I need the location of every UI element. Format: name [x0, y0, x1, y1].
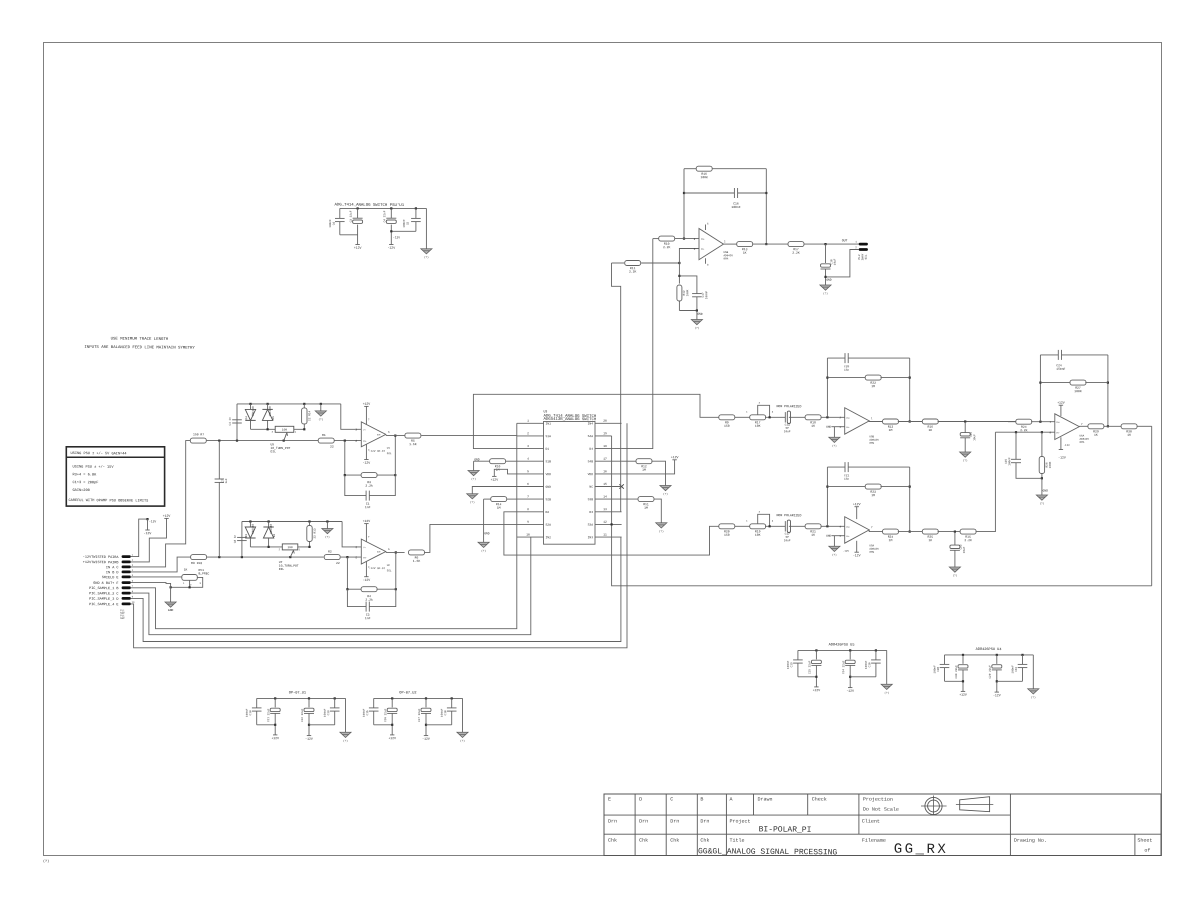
wire opamp output	[869, 420, 883, 423]
title block row lines	[604, 814, 1010, 816]
svg-text:2.2K: 2.2K	[629, 269, 637, 273]
svg-text:of: of	[1144, 848, 1150, 854]
capacitor C4 1n	[236, 404, 238, 441]
capacitor C6	[339, 208, 341, 218]
svg-text:2.2k: 2.2k	[365, 484, 373, 488]
wire trimpot wiper	[290, 551, 293, 558]
svg-text:GND: GND	[826, 535, 831, 538]
resistor R9 150	[719, 415, 735, 420]
svg-text:ADG5413B_ANALOG SWITCH: ADG5413B_ANALOG SWITCH	[543, 417, 596, 422]
cone symbol	[960, 797, 990, 812]
capacitor C25 100nF	[1015, 432, 1017, 459]
wire psu rail	[257, 697, 346, 699]
power -12V opamp	[365, 444, 367, 459]
capacitor C15 22uF	[815, 649, 817, 651]
resistor R14 1M pin7	[507, 498, 517, 500]
svg-text:A: A	[729, 797, 732, 803]
svg-text:-12V OP-07: -12V OP-07	[369, 450, 386, 453]
svg-text:1K: 1K	[811, 533, 815, 537]
resistor R9 150	[191, 555, 207, 560]
wire rail to opamp pin3	[341, 404, 362, 429]
power +12V VDD pin5	[494, 469, 517, 476]
svg-text:AD8426PSU U4: AD8426PSU U4	[976, 647, 1002, 652]
svg-text:-12V: -12V	[993, 693, 1001, 697]
svg-text:-12V: -12V	[363, 578, 371, 582]
IC pin 5 VDD	[517, 473, 544, 475]
wire feedback left vertical	[826, 358, 828, 417]
power -12V opamp	[365, 561, 367, 576]
vertical R12 divider	[678, 263, 680, 284]
power +12V U6	[1060, 405, 1062, 416]
svg-text:1.6K: 1.6K	[413, 559, 421, 563]
svg-text:10uF: 10uF	[834, 258, 837, 265]
resistor R1 22	[318, 438, 334, 443]
power -12V U6	[1060, 437, 1062, 449]
resistor R22 1M	[827, 377, 866, 379]
svg-text:1nF: 1nF	[365, 616, 371, 620]
resistor R10 1M pin4	[506, 460, 517, 462]
svg-text:S2A: S2A	[545, 524, 551, 527]
svg-text:GND: GND	[168, 609, 174, 612]
svg-text:2.2K: 2.2K	[964, 538, 972, 542]
IC pin 7 S2B	[517, 498, 544, 500]
wire SHIELD to RV1	[131, 576, 182, 578]
wire D2 pin8 to lower filter	[504, 512, 722, 555]
svg-text:C10: C10	[249, 710, 252, 715]
op-amp U2 OP-07	[361, 539, 386, 564]
svg-text:C13: C13	[790, 662, 793, 667]
svg-text:DIL: DIL	[270, 450, 276, 453]
ground connector	[165, 602, 176, 607]
capacitor C14 10uF	[784, 412, 786, 422]
capacitor C16	[875, 649, 877, 651]
wire R12/C17 bottom	[679, 310, 697, 312]
diode D4 1N4148	[249, 403, 251, 405]
svg-text:S2B: S2B	[545, 498, 551, 501]
power -12V	[848, 687, 852, 689]
capacitor C7 1uF interchannel	[218, 441, 220, 479]
svg-text:-12V: -12V	[1058, 455, 1066, 459]
wire C6-C3 bottom	[340, 234, 358, 236]
capacitor C15 10uF to gnd	[964, 422, 966, 433]
resistor R14 22 vertical	[303, 403, 305, 405]
svg-text:INPUTS ARE BALANCED FEED LINE: INPUTS ARE BALANCED FEED LINE MAINTAIN S…	[84, 345, 195, 351]
svg-text:C17 22uF: C17 22uF	[418, 708, 421, 722]
svg-text:(?): (?)	[1040, 502, 1045, 505]
wire clamp rail	[242, 521, 342, 523]
svg-text:22: 22	[336, 561, 340, 565]
svg-text:-12V: -12V	[1063, 444, 1070, 447]
svg-text:10uF: 10uF	[784, 539, 791, 542]
svg-text:IN-: IN-	[363, 440, 367, 443]
svg-text:IN B D: IN B D	[106, 570, 119, 575]
wire feedback left	[683, 169, 685, 239]
svg-text:GND: GND	[484, 532, 490, 535]
svg-text:1.6K: 1.6K	[409, 442, 417, 446]
svg-text:R1: R1	[322, 433, 326, 437]
power -12V	[307, 735, 311, 737]
svg-text:+12V: +12V	[671, 455, 679, 459]
svg-text:Check: Check	[812, 797, 827, 803]
power +12V flag pin2	[164, 517, 168, 519]
svg-text:C3 22uF: C3 22uF	[350, 210, 353, 222]
svg-text:19: 19	[603, 432, 607, 435]
svg-text:C16: C16	[868, 662, 871, 667]
svg-text:Chk: Chk	[700, 838, 709, 844]
wire psu rail	[945, 654, 1034, 656]
op-amp U5B	[699, 229, 724, 260]
capacitor C17	[679, 276, 697, 294]
wire PIC_SAMPLE_2 bus	[131, 537, 531, 635]
svg-text:+12V: +12V	[813, 688, 821, 692]
wire IN B to R9	[131, 557, 191, 572]
svg-text:E: E	[608, 797, 611, 803]
power +12V pin16	[622, 460, 675, 474]
svg-text:(?): (?)	[695, 327, 700, 330]
capacitor C18	[451, 697, 453, 699]
svg-text:C1+3 = 200pF: C1+3 = 200pF	[72, 480, 98, 485]
wire R11 to opamp pin3	[678, 262, 680, 264]
svg-text:10uF: 10uF	[963, 546, 966, 553]
trimpot 100 TURN_POT	[282, 544, 298, 550]
svg-text:R2: R2	[328, 550, 332, 554]
wire feedback to output	[395, 552, 397, 589]
ground psu rail	[462, 698, 464, 732]
svg-text:IN-: IN-	[701, 248, 705, 251]
svg-text:14: 14	[603, 495, 607, 498]
svg-text:-12V: -12V	[853, 553, 861, 557]
capacitor C1 1nF feedback	[345, 475, 366, 496]
svg-text:100K: 100K	[1074, 389, 1082, 393]
resistor R6 1.6K output	[386, 551, 405, 553]
svg-text:15: 15	[603, 483, 607, 486]
svg-text:(?): (?)	[470, 501, 475, 504]
potentiometer R19 10K	[750, 524, 766, 529]
power +12V	[961, 690, 965, 692]
svg-text:(?): (?)	[1031, 696, 1036, 699]
resistor R24 2.2K	[1008, 421, 1016, 423]
svg-text:10: 10	[526, 533, 530, 536]
IC pin 15 NC	[595, 486, 622, 488]
svg-text:-12V: -12V	[305, 737, 313, 741]
capacitor C8 1n	[241, 522, 243, 558]
svg-text:17: 17	[603, 458, 607, 461]
ground pin6	[472, 487, 517, 494]
IC U3 ADG T414 analog switch body	[544, 422, 596, 545]
svg-text:100nF: 100nF	[1008, 457, 1011, 466]
svg-text:18: 18	[603, 445, 607, 448]
svg-text:80%: 80%	[1079, 441, 1084, 444]
svg-text:U3: U3	[543, 409, 547, 413]
svg-text:GG&GL_ANALOG SIGNAL PRCESSING: GG&GL_ANALOG SIGNAL PRCESSING	[698, 847, 837, 857]
capacitor C30 22uF	[962, 654, 964, 656]
svg-text:1N4148: 1N4148	[252, 524, 255, 534]
svg-text:B: B	[700, 797, 703, 803]
svg-text:D4: D4	[245, 416, 248, 420]
ground clamp rail	[320, 403, 322, 405]
svg-text:C15: C15	[366, 710, 369, 715]
svg-text:S1B: S1B	[545, 460, 551, 463]
svg-text:1M: 1M	[644, 506, 648, 510]
wire psu rail	[798, 649, 887, 651]
svg-text:Sheet: Sheet	[1137, 838, 1152, 844]
power +12V	[273, 734, 277, 736]
IC pin 20 IN4	[595, 422, 622, 424]
wire bottom right pair	[997, 680, 1023, 682]
svg-text:(?): (?)	[318, 418, 323, 421]
power +12V	[390, 734, 394, 736]
svg-text:NC: NC	[589, 486, 593, 489]
svg-text:1M: 1M	[871, 493, 875, 497]
svg-text:20: 20	[603, 420, 607, 423]
wire U6 feedback verticals	[1039, 355, 1041, 422]
svg-text:DIL: DIL	[387, 569, 392, 572]
wire PIC_SAMPLE_3 bus	[131, 537, 621, 642]
svg-text:100K: 100K	[686, 289, 689, 296]
power +12V opamp	[365, 524, 367, 542]
wire feedback to output	[394, 436, 396, 476]
diode D2 1N4148	[268, 520, 270, 522]
svg-text:C13: C13	[327, 710, 330, 715]
svg-text:(?): (?)	[659, 530, 664, 533]
capacitor C28	[944, 655, 946, 664]
svg-text:Client: Client	[862, 819, 880, 825]
svg-text:-12V: -12V	[363, 461, 371, 465]
svg-text:-12V: -12V	[422, 737, 430, 741]
wire feedback right	[765, 169, 767, 244]
wire trimpot wiper	[284, 433, 287, 441]
wire U6 pin3 line	[995, 431, 1054, 433]
trimpot 100 TURN_POT	[275, 426, 294, 432]
svg-text:(?): (?)	[325, 536, 330, 539]
svg-text:-12V: -12V	[149, 520, 156, 523]
svg-text:Do Not Scale: Do Not Scale	[863, 807, 899, 813]
svg-text:PIC_SAMPLE_1 B: PIC_SAMPLE_1 B	[89, 586, 118, 591]
svg-text:-12V: -12V	[846, 689, 854, 693]
power +12V U5A	[856, 507, 858, 519]
svg-text:3: 3	[527, 445, 529, 448]
capacitor C22 10uF to gnd	[954, 532, 956, 546]
svg-text:USING PSU ± +/- 15V: USING PSU ± +/- 15V	[72, 465, 114, 470]
svg-text:IN-: IN-	[1056, 431, 1059, 434]
svg-text:C12 22uF: C12 22uF	[301, 708, 304, 722]
wire PL2 pin2 to gnd	[826, 250, 859, 277]
power -12V	[424, 735, 428, 737]
svg-text:Drn: Drn	[670, 819, 679, 825]
capacitor C10	[256, 698, 258, 707]
svg-text:DIL: DIL	[279, 568, 285, 571]
svg-text:1K: 1K	[743, 251, 747, 255]
svg-text:SIL: SIL	[865, 254, 868, 259]
svg-text:+12V: +12V	[853, 502, 861, 506]
svg-text:(?): (?)	[832, 554, 837, 557]
svg-text:+12V: +12V	[163, 514, 171, 518]
svg-text:10uF: 10uF	[973, 434, 976, 441]
svg-text:GND: GND	[474, 458, 480, 461]
svg-text:(?): (?)	[43, 859, 49, 864]
svg-text:ADG_T414_ANALOG SWITCH PSU'U1: ADG_T414_ANALOG SWITCH PSU'U1	[334, 203, 404, 209]
svg-text:OP-07_U2: OP-07_U2	[399, 690, 416, 695]
wire U6 output	[1079, 425, 1088, 427]
svg-text:IN-: IN-	[846, 535, 849, 538]
svg-text:15n: 15n	[844, 369, 849, 372]
wire RV1 terminal3 to wiper	[171, 577, 203, 587]
wire +12V pin2	[131, 518, 167, 562]
svg-text:+12V: +12V	[1057, 401, 1065, 405]
capacitor C31	[1021, 654, 1023, 656]
wire clamp rail	[237, 403, 341, 405]
resistor R26 100K vertical	[1041, 432, 1043, 456]
svg-text:Filename: Filename	[862, 838, 886, 844]
svg-text:1uF: 1uF	[225, 478, 228, 483]
resistor R30 1K	[1121, 424, 1137, 429]
svg-text:C14 22uF: C14 22uF	[842, 660, 845, 674]
wire S4A S3A to output net	[612, 436, 1152, 586]
svg-text:+12VTWISTED PAIRB: +12VTWISTED PAIRB	[83, 560, 119, 565]
resistor R16 1K	[922, 419, 938, 424]
wire feedback left vertical	[826, 467, 828, 526]
svg-text:(?): (?)	[953, 574, 958, 577]
wire diode bottoms	[251, 428, 276, 430]
svg-text:(?): (?)	[481, 550, 486, 553]
resistor R3 2.2k feedback	[344, 441, 346, 476]
svg-text:Projection: Projection	[863, 797, 893, 803]
resistor R23 1M	[827, 486, 866, 488]
svg-text:D1: D1	[245, 533, 248, 537]
op-amp U1 OP-07	[361, 422, 386, 447]
capacitor C29 22uF	[996, 654, 998, 656]
wire PIC_SAMPLE_4 bus	[131, 423, 627, 648]
svg-text:C28: C28	[937, 667, 940, 672]
power -12V U5A	[856, 541, 858, 552]
capacitor C3 1nF feedback	[347, 589, 366, 606]
svg-text:100nF: 100nF	[705, 290, 708, 299]
svg-text:15n: 15n	[844, 478, 849, 481]
svg-text:VDD: VDD	[588, 473, 594, 476]
svg-text:1M: 1M	[889, 428, 893, 432]
svg-text:S1A: S1A	[545, 435, 551, 438]
svg-text:+12V: +12V	[959, 693, 967, 697]
ground clamp rail	[326, 520, 328, 522]
capacitor C17 22uF	[425, 697, 427, 699]
wire D3 pin13 to R11 input	[612, 263, 621, 512]
svg-text:D5: D5	[272, 416, 275, 420]
capacitor C20 15n	[827, 357, 845, 359]
svg-text:VDD: VDD	[545, 473, 551, 476]
resistor R10	[653, 238, 659, 240]
svg-text:OUT: OUT	[842, 238, 848, 242]
svg-text:13: 13	[603, 508, 607, 511]
svg-text:(?): (?)	[832, 445, 837, 448]
power -12V	[995, 691, 999, 693]
resistor R7 150	[190, 438, 206, 443]
capacitor C3	[357, 207, 359, 209]
ground R12	[660, 486, 671, 491]
svg-text:USE MINIMUM TRACE LENGTH: USE MINIMUM TRACE LENGTH	[111, 337, 169, 342]
power +12V	[355, 244, 359, 246]
resistor R16	[684, 168, 696, 170]
wire RV1 wiper	[189, 580, 191, 587]
wire bottom right pair	[426, 724, 452, 726]
wire output to S2A	[425, 524, 517, 552]
op-amp U6A	[1055, 414, 1080, 440]
svg-text:C16 22uF: C16 22uF	[384, 708, 387, 722]
svg-text:-12V: -12V	[144, 531, 152, 535]
svg-text:+12V: +12V	[354, 246, 362, 250]
IC pin 17 S4B	[595, 460, 622, 462]
svg-text:D4: D4	[589, 448, 593, 451]
svg-text:1M: 1M	[889, 538, 893, 542]
svg-text:1K: 1K	[184, 568, 188, 571]
svg-text:D3: D3	[589, 511, 593, 514]
capacitor C12 22uF	[308, 697, 310, 699]
ground psu rail	[345, 698, 347, 732]
resistor R27 100K	[1040, 382, 1070, 384]
IC pin 6 GND	[517, 486, 544, 488]
power -12V flag pin1	[147, 519, 149, 530]
svg-text:C6: C6	[333, 221, 336, 225]
resistor R21 1K	[805, 524, 821, 529]
wire -12V pin1	[131, 519, 148, 557]
svg-text:2: 2	[527, 432, 529, 435]
svg-text:1nF: 1nF	[365, 505, 371, 509]
svg-text:4: 4	[527, 458, 529, 461]
svg-text:2.2k: 2.2k	[365, 598, 373, 602]
resistor R17	[788, 242, 804, 247]
svg-text:150: 150	[724, 424, 730, 428]
op-amp U5B	[845, 408, 870, 435]
svg-text:80%: 80%	[869, 442, 874, 445]
svg-text:C15 22uF: C15 22uF	[808, 660, 811, 674]
svg-text:80%: 80%	[869, 551, 874, 554]
svg-text:Drawn: Drawn	[757, 797, 772, 803]
svg-text:S3A: S3A	[588, 524, 594, 527]
svg-text:Chk: Chk	[639, 838, 648, 844]
svg-text:(?): (?)	[424, 256, 429, 259]
svg-text:Project: Project	[729, 819, 750, 825]
potentiometer RV1 BI_PREC	[182, 575, 198, 581]
resistor R2 22	[324, 555, 340, 560]
svg-text:Title: Title	[729, 838, 744, 844]
svg-text:C11 22uF: C11 22uF	[267, 708, 270, 722]
svg-text:CAREFUL WITH OPAMP PSU OBSERVE: CAREFUL WITH OPAMP PSU OBSERVE LIMITS	[68, 498, 148, 504]
resistor R24 1M output	[883, 529, 899, 534]
IC pin 13 D3	[595, 511, 622, 513]
IC pin 14 S3B	[595, 498, 622, 500]
svg-text:-12V: -12V	[387, 246, 395, 250]
svg-text:BI-POLAR_PI: BI-POLAR_PI	[759, 825, 812, 834]
svg-text:1N4148: 1N4148	[269, 406, 272, 416]
svg-text:NON POLARIZED: NON POLARIZED	[776, 513, 801, 517]
svg-text:GND: GND	[1042, 490, 1048, 493]
ground R26 C25	[1041, 478, 1043, 495]
svg-text:GND: GND	[826, 279, 832, 282]
wire pot wiper loop	[758, 514, 770, 526]
svg-text:2.2K: 2.2K	[663, 245, 671, 249]
svg-text:100nF: 100nF	[403, 219, 406, 228]
wire IN A to R7	[131, 441, 190, 567]
svg-text:1K: 1K	[928, 428, 932, 432]
IC pin 18 D4	[595, 448, 622, 450]
svg-text:22: 22	[330, 445, 334, 449]
svg-text:2.2K: 2.2K	[1020, 428, 1028, 432]
power +12V	[814, 686, 818, 688]
nc cross pin 15	[619, 484, 623, 488]
svg-text:OP-07_U1: OP-07_U1	[289, 690, 306, 695]
svg-text:11: 11	[603, 533, 607, 536]
resistor R12 100K	[677, 285, 682, 301]
IC pin 11 IN3	[595, 536, 622, 538]
